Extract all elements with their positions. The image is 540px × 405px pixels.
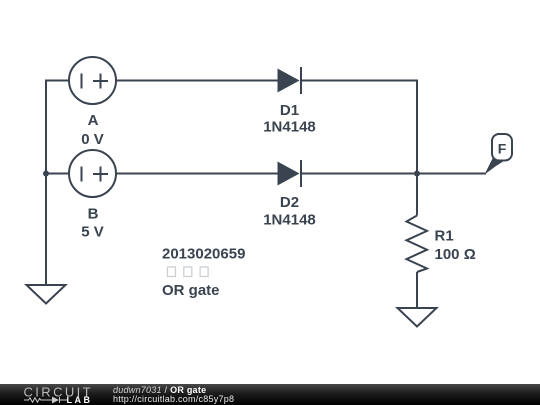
- svg-text:1N4148: 1N4148: [263, 212, 316, 229]
- svg-text:2013020659: 2013020659: [162, 246, 245, 263]
- CircuitLab logo: [0, 384, 100, 405]
- wire left top corner to source A: [46, 81, 69, 286]
- svg-text:A: A: [88, 112, 99, 129]
- svg-text:LAB: LAB: [67, 395, 93, 405]
- wire resistor R1 to ground: [416, 272, 418, 308]
- ground left: [27, 285, 66, 304]
- wire D1 cathode to top-right corner down to node F: [302, 81, 417, 174]
- wire source A right to diode D1: [116, 80, 278, 82]
- flag F: [485, 134, 513, 175]
- diode D1: [278, 67, 302, 94]
- missing-glyph box 2: [184, 267, 192, 277]
- missing-glyph box 3: [200, 267, 208, 277]
- wire D2 cathode to junction F: [302, 173, 417, 175]
- voltage source B: [69, 150, 116, 197]
- svg-text:B: B: [88, 206, 99, 223]
- svg-text:D1: D1: [280, 102, 299, 119]
- ground right: [398, 308, 437, 327]
- voltage source A: [69, 57, 116, 104]
- diode D2: [278, 160, 302, 187]
- svg-text:D2: D2: [280, 194, 299, 211]
- junction dot left (node at source B): [43, 171, 49, 177]
- junction dot node F: [414, 171, 420, 177]
- svg-text:R1: R1: [435, 228, 454, 245]
- svg-text:1N4148: 1N4148: [263, 119, 316, 136]
- svg-text:100 Ω: 100 Ω: [435, 246, 476, 263]
- wire source B right to diode D2: [116, 173, 278, 175]
- missing-glyph box 1: [168, 267, 176, 277]
- svg-text:0 V: 0 V: [81, 131, 104, 148]
- footer info text: [113, 386, 234, 405]
- wire junction down to resistor R1: [416, 174, 418, 216]
- svg-text:OR gate: OR gate: [162, 282, 220, 299]
- footer bar: [0, 384, 540, 405]
- wire node B row: left junction to source B: [46, 173, 69, 175]
- svg-text:F: F: [498, 141, 507, 157]
- resistor R1: [407, 216, 428, 273]
- wire junction to flag F tail: [417, 173, 486, 175]
- svg-text:5 V: 5 V: [81, 224, 104, 241]
